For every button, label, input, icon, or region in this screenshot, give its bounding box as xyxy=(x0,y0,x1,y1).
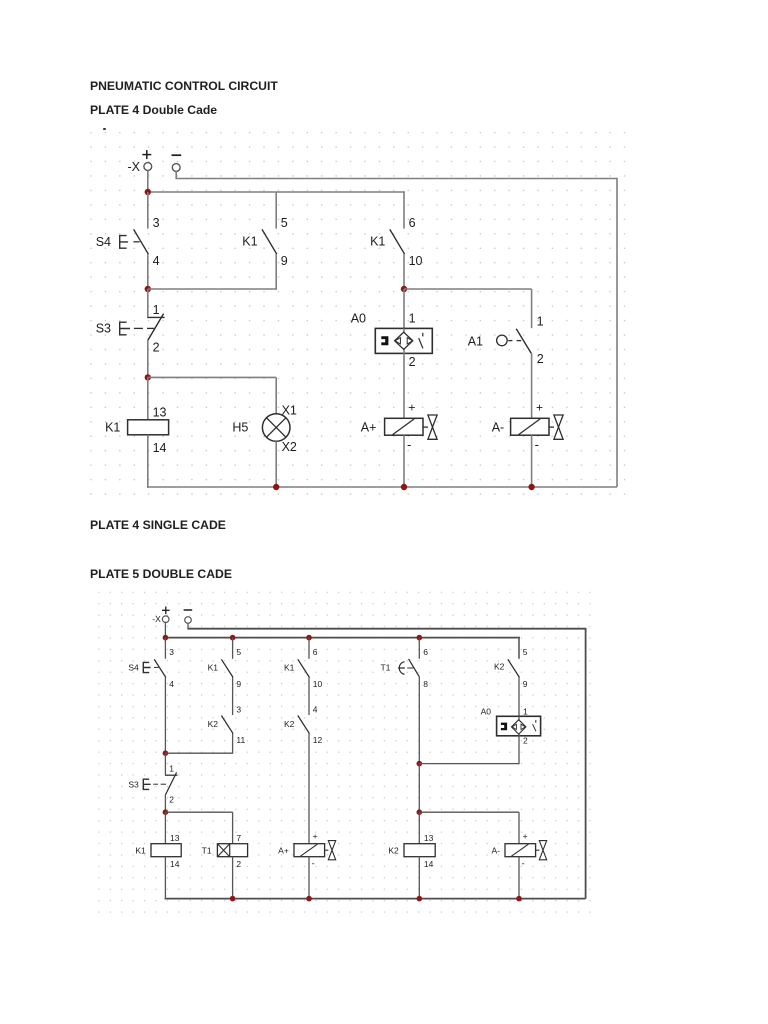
polarity + of A+ xyxy=(408,400,415,414)
pin 8 plate5 xyxy=(423,679,428,689)
junction T1 bottom plate5 xyxy=(230,896,236,902)
title PNEUMATIC CONTROL CIRCUIT xyxy=(90,79,278,93)
wire col1 bus to S4 pin3 xyxy=(147,192,149,229)
svg-text:K1: K1 xyxy=(284,663,295,673)
svg-text:4: 4 xyxy=(153,254,160,268)
svg-text:K2: K2 xyxy=(494,662,505,672)
label K2 contact a plate5 xyxy=(208,719,219,729)
svg-text:+: + xyxy=(313,831,318,841)
junction bus col3 plate5 xyxy=(306,635,312,641)
label A+ plate5 xyxy=(278,846,289,856)
wire A+ to bottom bus plate5 xyxy=(308,857,310,899)
svg-text:K1: K1 xyxy=(135,846,146,856)
pin 7 T1 plate5 xyxy=(236,833,241,843)
wire bottom return bus xyxy=(147,486,617,488)
svg-text:K2: K2 xyxy=(284,719,295,729)
svg-text:-: - xyxy=(407,437,411,452)
reed switch A0 xyxy=(375,328,432,353)
wire A0 2 branch to node C plate5 xyxy=(419,763,519,765)
pin 9 xyxy=(281,254,288,268)
pin 5 xyxy=(281,216,288,230)
pin 9 col2 plate5 xyxy=(236,679,241,689)
svg-text:1: 1 xyxy=(153,303,160,317)
label T1 contact plate5 xyxy=(380,663,390,673)
wire bus to K1 contact pin5 xyxy=(275,192,277,229)
wire node D to solenoid A- plate5 xyxy=(518,812,520,844)
wire bottom bus plate5 xyxy=(165,898,586,900)
contact K2 5-9 plate5 xyxy=(508,659,520,677)
pin 14 K2 plate5 xyxy=(424,859,434,869)
svg-text:9: 9 xyxy=(236,679,241,689)
label K1 contact plate5 xyxy=(208,663,219,673)
svg-text:14: 14 xyxy=(153,441,167,455)
junction lamp bottom xyxy=(273,484,279,490)
junction node D plate5 xyxy=(417,809,423,815)
power terminal +X1 plate5 xyxy=(162,607,170,623)
wire K2 coil to bottom bus plate5 xyxy=(418,857,420,899)
junction bus col2 plate5 xyxy=(230,635,236,641)
wire K1 9 to K2 3 plate5 xyxy=(232,677,234,715)
svg-text:A+: A+ xyxy=(278,846,289,856)
polarity - of A- xyxy=(535,437,539,452)
contact K2 4-12 plate5 xyxy=(298,716,310,734)
wire negative rail plate5 xyxy=(187,628,585,630)
label K2 contact c plate5 xyxy=(494,662,505,672)
wire node A to S3 plate5 xyxy=(164,753,166,774)
wire K1 pin14 to bottom bus xyxy=(147,435,149,488)
junction node B plate5 xyxy=(163,809,169,815)
svg-text:K2: K2 xyxy=(388,846,399,856)
wire S4 pin4 to junction xyxy=(147,254,149,289)
wire K2 12 to solenoid A+ plate5 xyxy=(308,734,310,844)
label S3 plate5 xyxy=(128,779,139,789)
svg-text:5: 5 xyxy=(281,216,288,230)
pin 14 xyxy=(153,441,167,455)
label A0 plate5 xyxy=(481,707,492,717)
label A1 xyxy=(468,334,483,348)
wire - terminal down xyxy=(175,171,177,178)
junction bus col4 plate5 xyxy=(417,635,423,641)
svg-text:K1: K1 xyxy=(105,421,120,435)
polarity + of A- plate5 xyxy=(523,831,528,841)
wire node B to T1 coil plate5 xyxy=(232,812,234,844)
wire bus corner to K2 contact plate5 xyxy=(518,637,520,659)
svg-text:K1: K1 xyxy=(208,663,219,673)
wire lamp branch down xyxy=(275,377,277,413)
svg-text:9: 9 xyxy=(523,679,528,689)
reed switch A0 plate5 xyxy=(497,716,541,736)
contact K2 3-11 plate5 xyxy=(221,716,233,734)
wire K1 coil to bottom bus plate5 xyxy=(164,857,166,900)
junction col1 node A xyxy=(145,286,151,292)
pin X2 xyxy=(282,440,297,454)
junction A+ bottom xyxy=(401,484,407,490)
wire + terminal to bus junction xyxy=(147,170,149,192)
contact K1 5-9 plate5 xyxy=(221,659,233,677)
svg-text:+: + xyxy=(523,831,528,841)
pin 13 K1 plate5 xyxy=(170,833,180,843)
label K2 contact b plate5 xyxy=(284,719,295,729)
pin 12 plate5 xyxy=(313,735,323,745)
svg-text:A0: A0 xyxy=(481,707,492,717)
svg-text:+: + xyxy=(408,400,415,414)
relay coil K1 xyxy=(128,420,169,435)
wire S3 to node B plate5 xyxy=(164,795,166,813)
svg-text:K1: K1 xyxy=(242,235,257,249)
pin 2 A0 xyxy=(409,355,416,369)
polarity - of A+ xyxy=(407,437,411,452)
pin 3 plate5 xyxy=(169,647,174,657)
wire positive bus plate5 xyxy=(165,637,519,639)
svg-text:10: 10 xyxy=(313,679,323,689)
pin 1 A1 xyxy=(537,314,544,328)
junction bus col1 plate5 xyxy=(163,635,169,641)
relay coil K1 plate5 xyxy=(151,844,181,857)
svg-text:A-: A- xyxy=(492,846,501,856)
svg-text:-X: -X xyxy=(152,614,161,624)
wire node C to A0 pin1 xyxy=(403,289,405,328)
pin 2 plate5 xyxy=(169,795,174,805)
polarity - of A+ plate5 xyxy=(312,859,315,869)
indicator lamp H5 xyxy=(262,414,290,442)
svg-text:T1: T1 xyxy=(380,663,390,673)
pin 5 K2 plate5 xyxy=(523,647,528,657)
label A0 xyxy=(351,311,366,325)
junction A- bottom plate5 xyxy=(516,896,522,902)
relay coil K2 plate5 xyxy=(404,844,435,857)
svg-text:S4: S4 xyxy=(96,235,111,249)
svg-text:2: 2 xyxy=(153,341,160,355)
label K1 contact b plate5 xyxy=(284,663,295,673)
svg-text:H5: H5 xyxy=(232,421,248,435)
solenoid valve A+ plate5 xyxy=(294,841,336,860)
contact K1 6-10 (NO) xyxy=(390,229,405,254)
wire bus to K1 contact plate5 xyxy=(232,638,234,659)
svg-text:3: 3 xyxy=(236,705,241,715)
svg-text:-X: -X xyxy=(128,160,141,174)
wire positive bus xyxy=(148,191,405,193)
timed contact T1 plate5 xyxy=(398,659,419,676)
wire K2 11 to node A plate5 xyxy=(232,734,234,754)
svg-text:K2: K2 xyxy=(208,719,219,729)
wire T1 coil branch to node B plate5 xyxy=(165,811,232,813)
wire A1 branch down xyxy=(531,289,533,328)
wire K1 pin10 to node C xyxy=(403,254,405,289)
wire A- branch to node D plate5 xyxy=(419,811,519,813)
wire K1 pin9 to node A xyxy=(275,254,277,290)
pin 2 A1 xyxy=(537,352,544,366)
power terminal +X1 xyxy=(142,150,151,170)
solenoid valve A+ xyxy=(385,415,438,439)
pin 9 K2 plate5 xyxy=(523,679,528,689)
wire lamp to bottom bus xyxy=(275,441,277,487)
svg-text:2: 2 xyxy=(537,352,544,366)
power terminal -X2 xyxy=(172,155,182,171)
heading PLATE 4 SINGLE CADE xyxy=(90,518,226,532)
wire node B to K1 coil plate5 xyxy=(164,812,166,844)
svg-text:6: 6 xyxy=(423,647,428,657)
svg-text:1: 1 xyxy=(537,314,544,328)
wire bus to K1 contact pin6 xyxy=(403,191,405,228)
svg-text:S3: S3 xyxy=(128,779,139,789)
junction node C plate5 xyxy=(417,761,423,767)
svg-text:-: - xyxy=(535,437,539,452)
svg-text:-: - xyxy=(312,859,315,869)
svg-text:13: 13 xyxy=(424,833,434,843)
wire S4 to node A plate5 xyxy=(164,677,166,753)
wire A1 pin2 to solenoid A- xyxy=(531,353,533,418)
svg-text:X2: X2 xyxy=(282,440,297,454)
label K2 coil plate5 xyxy=(388,846,399,856)
pin 6 T1 plate5 xyxy=(423,647,428,657)
svg-text:13: 13 xyxy=(170,833,180,843)
contact K1 5-9 (NO) xyxy=(262,229,277,254)
timer coil T1 plate5 xyxy=(217,844,247,857)
svg-text:3: 3 xyxy=(153,216,160,230)
net label -X plate5 xyxy=(152,614,161,624)
svg-text:K1: K1 xyxy=(370,235,385,249)
pin 1 xyxy=(153,303,160,317)
wire negative rail top xyxy=(175,178,617,180)
limit switch A1 (NO) xyxy=(497,329,532,354)
power terminal -X2 plate5 xyxy=(184,610,193,623)
pin 10 xyxy=(409,254,423,268)
svg-text:+: + xyxy=(536,400,543,414)
wire A0 2 to node C plate5 xyxy=(518,736,520,765)
heading PLATE 5 DOUBLE CADE xyxy=(90,567,232,581)
svg-text:5: 5 xyxy=(236,647,241,657)
svg-text:2: 2 xyxy=(409,355,416,369)
junction col1 node B xyxy=(145,374,151,380)
pin 1 A0 xyxy=(409,311,416,325)
pin 10 plate5 xyxy=(313,679,323,689)
svg-text:-: - xyxy=(522,859,525,869)
svg-text:1: 1 xyxy=(409,311,416,325)
wire right edge return xyxy=(616,178,618,487)
junction K2 bottom plate5 xyxy=(417,896,423,902)
net label -X xyxy=(128,160,141,174)
svg-text:14: 14 xyxy=(170,859,180,869)
wire T1 coil to bottom bus plate5 xyxy=(232,857,234,899)
wire node A to S3 pin1 xyxy=(147,289,149,317)
wire node B to lamp branch xyxy=(148,376,276,378)
svg-text:11: 11 xyxy=(236,735,245,745)
svg-text:T1: T1 xyxy=(202,846,212,856)
svg-text:9: 9 xyxy=(281,254,288,268)
label S3 xyxy=(96,322,111,336)
svg-text:3: 3 xyxy=(169,647,174,657)
svg-text:S3: S3 xyxy=(96,322,111,336)
wire node C to A1 branch xyxy=(404,288,532,290)
wire - down plate5 xyxy=(187,623,189,629)
svg-text:A+: A+ xyxy=(361,421,377,435)
wire K1 5-9 branch to node A xyxy=(148,288,276,290)
svg-text:2: 2 xyxy=(236,859,241,869)
svg-text:6: 6 xyxy=(313,647,318,657)
pin 14 K1 plate5 xyxy=(170,859,180,869)
svg-text:13: 13 xyxy=(153,406,167,420)
svg-text:7: 7 xyxy=(236,833,241,843)
wire node C to node D plate5 xyxy=(418,764,420,813)
junction A- bottom xyxy=(528,484,534,490)
pin 11 plate5 xyxy=(236,735,245,745)
pin 1 A0 plate5 xyxy=(523,707,528,717)
svg-text:S4: S4 xyxy=(128,663,139,673)
label K1 contact a xyxy=(242,235,257,249)
svg-text:1: 1 xyxy=(523,707,528,717)
polarity + of A- xyxy=(536,400,543,414)
pin 4 K2 plate5 xyxy=(313,705,318,715)
svg-text:2: 2 xyxy=(169,795,174,805)
svg-text:4: 4 xyxy=(169,679,174,689)
label S4 xyxy=(96,235,111,249)
wire node D to K2 coil plate5 xyxy=(418,812,420,844)
junction bus at col1 xyxy=(145,189,151,195)
label K1 coil xyxy=(105,421,120,435)
pin 2 xyxy=(153,341,160,355)
pin 3 K2 plate5 xyxy=(236,705,241,715)
svg-text:8: 8 xyxy=(423,679,428,689)
wire col1 to S4 plate5 xyxy=(164,638,166,659)
pin 4 xyxy=(153,254,160,268)
junction node A plate5 xyxy=(163,750,169,756)
wire bus to T1 contact plate5 xyxy=(418,638,420,659)
wire A- to bottom bus xyxy=(531,435,533,487)
wire S3 pin2 to junction xyxy=(147,340,149,377)
svg-text:2: 2 xyxy=(523,736,528,746)
wire K2 9 to A0 plate5 xyxy=(518,677,520,716)
svg-text:A-: A- xyxy=(492,421,505,435)
bullet dot xyxy=(103,128,106,131)
pushbutton S4 plate5 xyxy=(143,659,166,677)
svg-text:10: 10 xyxy=(409,254,423,268)
wire A0 pin2 to solenoid A+ xyxy=(403,353,405,418)
polarity + of A+ plate5 xyxy=(313,831,318,841)
subtitle PLATE 4 Double Cade xyxy=(90,103,217,117)
label K1 contact b xyxy=(370,235,385,249)
wire node B to K1 coil pin13 xyxy=(147,377,149,419)
label S4 plate5 xyxy=(128,663,139,673)
pin 13 xyxy=(153,406,167,420)
junction A+ bottom plate5 xyxy=(306,896,312,902)
pin 6 xyxy=(409,216,416,230)
wire right edge plate5 xyxy=(585,628,587,899)
pin 2 T1 plate5 xyxy=(236,859,241,869)
pin 2 A0 plate5 xyxy=(523,736,528,746)
label T1 coil plate5 xyxy=(202,846,212,856)
solenoid valve A- xyxy=(511,415,563,439)
pin 5 col2 plate5 xyxy=(236,647,241,657)
svg-text:6: 6 xyxy=(409,216,416,230)
wire T1 8 to node C plate5 xyxy=(418,676,420,764)
wire + to bus plate5 xyxy=(164,622,166,638)
svg-text:5: 5 xyxy=(523,647,528,657)
svg-text:A0: A0 xyxy=(351,311,366,325)
contact K1 6-10 plate5 xyxy=(298,659,310,677)
pushbutton S3 (NC) xyxy=(120,314,165,341)
wire K2 11 branch to node A plate5 xyxy=(165,752,232,754)
label H5 xyxy=(232,421,248,435)
polarity - of A- plate5 xyxy=(522,859,525,869)
pin X1 xyxy=(282,404,297,418)
label K1 coil plate5 xyxy=(135,846,146,856)
pushbutton S4 (NO) xyxy=(120,229,149,254)
wire K1 10 to K2 4 plate5 xyxy=(308,677,310,715)
pin 4 plate5 xyxy=(169,679,174,689)
solenoid valve A- plate5 xyxy=(505,841,547,860)
wire A+ to bottom bus xyxy=(403,435,405,487)
label A+ xyxy=(361,421,377,435)
label A- xyxy=(492,421,505,435)
pin 1 plate5 xyxy=(169,764,174,774)
pin 3 xyxy=(153,216,160,230)
svg-text:1: 1 xyxy=(169,764,174,774)
junction node C xyxy=(401,286,407,292)
pin 13 K2 plate5 xyxy=(424,833,434,843)
wire bus to K1 contact col3 plate5 xyxy=(308,638,310,659)
svg-text:14: 14 xyxy=(424,859,434,869)
svg-text:A1: A1 xyxy=(468,334,483,348)
wire A- to bottom bus plate5 xyxy=(518,857,520,899)
label A- plate5 xyxy=(492,846,501,856)
pin 6 col3 plate5 xyxy=(313,647,318,657)
svg-text:4: 4 xyxy=(313,705,318,715)
svg-text:12: 12 xyxy=(313,735,323,745)
pushbutton S3 plate5 xyxy=(143,772,177,795)
